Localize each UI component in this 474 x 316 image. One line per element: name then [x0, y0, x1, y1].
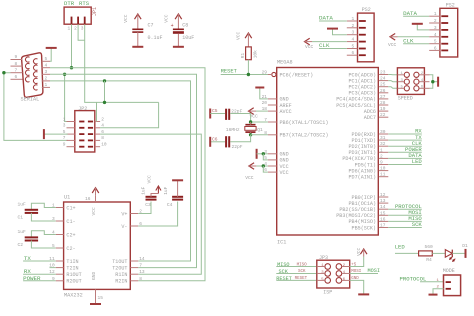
svg-text:1: 1 — [380, 147, 383, 153]
connector JP2 (2x5 pin header) — [63, 106, 107, 152]
svg-text:1uF: 1uF — [18, 229, 27, 235]
svg-text:PD3(INT1): PD3(INT1) — [348, 150, 376, 156]
svg-text:1: 1 — [434, 11, 437, 17]
svg-text:RESET: RESET — [295, 277, 308, 281]
svg-text:6: 6 — [15, 74, 18, 80]
VCC at MEGA8 AVCC pin18 — [249, 108, 254, 115]
wire XTAL2 — [251, 134, 268, 136]
capacitor C5 22pF — [210, 108, 242, 120]
svg-text:PD7(AIN1): PD7(AIN1) — [348, 175, 376, 181]
svg-text:RESET: RESET — [276, 276, 292, 282]
svg-text:8: 8 — [139, 276, 142, 282]
capacitor C8 10uF (polarized) with VCC and ground — [163, 14, 194, 47]
svg-text:9: 9 — [15, 54, 18, 60]
svg-text:17: 17 — [380, 223, 386, 229]
svg-text:4: 4 — [352, 37, 355, 43]
svg-text:3: 3 — [63, 123, 66, 129]
svg-text:2: 2 — [434, 18, 437, 24]
svg-text:2: 2 — [352, 23, 355, 29]
svg-text:VCC: VCC — [280, 164, 289, 170]
junction R1/RESET — [247, 73, 250, 76]
junction DB9 pin2 / JP2 riser — [103, 79, 106, 82]
svg-text:T2IN: T2IN — [66, 265, 78, 271]
MAX232 GND pin15 — [90, 271, 103, 304]
svg-text:22: 22 — [380, 112, 386, 118]
wire D1 to ground — [452, 252, 465, 254]
svg-text:VCC: VCC — [163, 14, 169, 23]
svg-text:PD0(RXD): PD0(RXD) — [352, 132, 376, 138]
junction XTAL2 — [249, 133, 252, 136]
svg-text:C4: C4 — [167, 202, 173, 208]
svg-text:PC0(ADC0): PC0(ADC0) — [348, 72, 376, 78]
wire DB9 pin2 net to bus (down to MAX232 T1OUT) — [50, 81, 191, 261]
wire MISO to ISP pin1 — [276, 266, 317, 268]
svg-text:1: 1 — [63, 116, 66, 122]
wire ISP pin4 MOSI — [350, 272, 378, 274]
inversion bubble on /RESET pin — [272, 72, 276, 76]
svg-text:10: 10 — [101, 142, 107, 148]
svg-text:PS2: PS2 — [362, 7, 371, 13]
svg-text:1: 1 — [68, 26, 71, 32]
svg-text:5: 5 — [45, 56, 48, 62]
svg-text:VCC: VCC — [245, 175, 254, 181]
wire DB9 pin7 to JP2 pin7 via left edge — [4, 73, 68, 141]
ground at MEGA8 pins 3,5 — [257, 149, 268, 160]
VCC at ISP pin2 — [350, 247, 367, 266]
svg-text:9: 9 — [380, 160, 383, 166]
capacitor C6 22pF — [210, 135, 250, 150]
svg-text:30: 30 — [380, 129, 386, 135]
svg-text:AVCC: AVCC — [280, 109, 292, 115]
svg-text:22pF: 22pF — [232, 144, 243, 150]
svg-text:T1IN: T1IN — [66, 259, 78, 265]
svg-text:MISO: MISO — [277, 262, 289, 268]
svg-text:V+: V+ — [121, 211, 127, 217]
wire PC2 to SPEED pin5 — [388, 87, 397, 89]
svg-text:C6: C6 — [212, 136, 218, 142]
VCC at MEGA8 pins 4,6 — [245, 163, 268, 181]
svg-text:3: 3 — [352, 30, 355, 36]
wire RESET to MEGA8 PC6 — [221, 74, 272, 76]
svg-text:16: 16 — [380, 216, 386, 222]
svg-text:JP2: JP2 — [78, 106, 87, 112]
svg-text:560: 560 — [425, 244, 434, 250]
svg-text:26: 26 — [380, 88, 386, 94]
svg-text:SCK: SCK — [279, 269, 289, 275]
svg-text:T1OUT: T1OUT — [112, 259, 127, 265]
connector SPEED (2x3 jumper) — [397, 68, 429, 102]
svg-text:1uF: 1uF — [140, 186, 146, 194]
junction on DB9 pin7 wire — [2, 71, 5, 74]
svg-text:2: 2 — [380, 153, 383, 159]
svg-text:PS2: PS2 — [446, 2, 455, 8]
svg-text:PD1(TXD): PD1(TXD) — [352, 138, 376, 144]
svg-text:2: 2 — [45, 76, 48, 82]
junction on JP2 pin2/4 net — [103, 101, 106, 104]
ground bar at SPEED — [437, 77, 439, 87]
svg-text:AREF: AREF — [280, 103, 292, 109]
svg-text:RTS: RTS — [79, 0, 90, 7]
svg-text:PC4(ADC4/SDA): PC4(ADC4/SDA) — [336, 97, 376, 103]
wire JP1 pin1 down to DB9 pin4 net — [71, 24, 73, 67]
svg-text:10uF: 10uF — [182, 35, 194, 41]
resistor R4 560 — [419, 244, 433, 263]
wire DB9 pin4 net to bus (down to MAX232 R2IN) — [50, 68, 205, 281]
wire LED to R4 — [395, 252, 419, 254]
svg-text:RESET: RESET — [221, 69, 238, 75]
ground at MODE pin2 — [433, 289, 444, 295]
wire CLK to PS2-2 pin5 — [403, 43, 429, 45]
svg-text:3: 3 — [434, 25, 437, 31]
svg-text:2: 2 — [101, 116, 104, 122]
MAX232 VCC pin16 — [85, 188, 99, 216]
svg-text:3: 3 — [45, 69, 48, 75]
ground at JP2 pin5 — [44, 133, 68, 135]
svg-text:5: 5 — [352, 44, 355, 50]
svg-text:6: 6 — [434, 45, 437, 51]
connector JP3 ISP (2x3) — [317, 255, 350, 296]
MAX232 left pins — [49, 203, 81, 285]
ground at PS2-2 pin3 — [417, 24, 429, 30]
svg-text:25: 25 — [380, 82, 386, 88]
svg-text:MEGA8: MEGA8 — [277, 60, 293, 66]
svg-text:7: 7 — [139, 263, 142, 269]
svg-text:+: + — [171, 23, 174, 29]
wire PC0 to SPEED pin1 — [388, 74, 397, 76]
junction DB9 pin3 / JP2 pin1 riser — [63, 73, 66, 76]
wire DATA to PS2-2 pin1 — [403, 15, 429, 17]
svg-text:VCC: VCC — [123, 14, 129, 23]
svg-text:U1: U1 — [64, 194, 70, 200]
ground at PS2-1 pin3 — [333, 29, 347, 35]
wire C5 to XTAL1 — [230, 114, 250, 123]
wire RESET to ISP pin5 — [276, 279, 317, 281]
svg-text:VCC: VCC — [91, 207, 97, 216]
wire JP1 pin2 to pin3 link — [78, 24, 85, 40]
svg-text:GND: GND — [280, 152, 289, 158]
svg-text:R1IN: R1IN — [115, 272, 127, 278]
svg-text:C1-: C1- — [66, 219, 75, 225]
wire R4 to D1 — [432, 252, 445, 254]
wire riser from DB9 pin2 net down to JP2 pin2/4 net — [104, 81, 106, 103]
ground bar at D1 — [465, 249, 467, 258]
svg-text:PB0(ICP): PB0(ICP) — [352, 195, 376, 201]
svg-text:VCC: VCC — [305, 44, 314, 50]
svg-text:SERIAL: SERIAL — [21, 96, 40, 102]
svg-text:1: 1 — [45, 82, 48, 88]
svg-text:10k: 10k — [252, 50, 258, 59]
svg-text:T2OUT: T2OUT — [112, 265, 127, 271]
wire DATA to PS2-1 pin1 — [319, 20, 347, 22]
svg-text:19: 19 — [380, 106, 386, 112]
svg-text:14: 14 — [380, 204, 386, 210]
svg-text:8: 8 — [101, 135, 104, 141]
svg-text:28: 28 — [380, 100, 386, 106]
svg-text:R1OUT: R1OUT — [66, 272, 81, 278]
wire PROTOCOL to MODE switch — [420, 281, 444, 283]
svg-text:VCC: VCC — [280, 170, 289, 176]
svg-text:1: 1 — [352, 16, 355, 22]
wire JP2 pin6 to bus (down to MAX232 R1IN) — [100, 134, 201, 274]
wire PC1 to SPEED pin3 — [388, 81, 397, 82]
capacitor C2 1uF — [18, 229, 56, 248]
svg-text:PB1(OC1A): PB1(OC1A) — [348, 201, 376, 207]
svg-text:Q1: Q1 — [257, 127, 263, 133]
wire JP1 pin3 down then right (DTR/RTS net) — [85, 24, 159, 102]
svg-text:29: 29 — [262, 70, 268, 76]
wire riser DB9 pin3 net down to JP2 pin1 — [65, 74, 67, 121]
svg-text:GND: GND — [280, 97, 289, 103]
connector JP1 (DTR/RTS pin header) — [64, 0, 98, 31]
svg-text:13: 13 — [139, 269, 145, 275]
VCC at PS2-2 pin4 — [390, 34, 395, 41]
switch S1 MODE — [437, 268, 461, 295]
svg-text:JP1: JP1 — [92, 7, 98, 16]
svg-text:12: 12 — [380, 192, 386, 198]
svg-text:16MHz: 16MHz — [226, 127, 240, 133]
svg-text:PB5(SCK): PB5(SCK) — [352, 225, 376, 231]
svg-text:PC2(ADC2): PC2(ADC2) — [348, 85, 376, 91]
wire DB9 pin3 net to bus (down to MAX232 T2OUT) — [50, 74, 197, 267]
svg-text:5: 5 — [434, 39, 437, 45]
svg-text:VCC: VCC — [146, 175, 152, 184]
svg-text:24: 24 — [380, 76, 386, 82]
microcontroller IC1 MEGA8 — [277, 60, 379, 246]
junction at JP1-pin1 / DB9-pin4 wire — [70, 66, 73, 69]
svg-text:MISO: MISO — [297, 263, 308, 267]
svg-text:PB2(SS/OC1B): PB2(SS/OC1B) — [339, 207, 376, 213]
svg-text:PC6(/RESET): PC6(/RESET) — [280, 72, 314, 78]
svg-text:PB7(XTAL2/TOSC2): PB7(XTAL2/TOSC2) — [280, 133, 329, 139]
svg-text:R2OUT: R2OUT — [66, 279, 81, 285]
svg-text:LED: LED — [395, 243, 406, 250]
svg-text:7: 7 — [15, 67, 18, 73]
ground at DB9 pin 5 — [50, 48, 51, 61]
crystal Q1 16MHz — [226, 122, 263, 135]
svg-text:C3: C3 — [145, 202, 151, 208]
svg-text:DTR: DTR — [64, 0, 75, 7]
wire stub T2IN — [50, 267, 56, 269]
svg-text:PD4(XCK/T0): PD4(XCK/T0) — [342, 156, 376, 162]
wire R1 to RESET net — [247, 60, 249, 75]
connector PS2 (left) — [347, 7, 374, 62]
svg-text:MODE: MODE — [443, 268, 455, 274]
svg-text:C7: C7 — [148, 23, 154, 29]
wire V+ to C3 — [138, 202, 151, 214]
svg-text:PD6(AIN0): PD6(AIN0) — [348, 168, 376, 174]
svg-text:PD2(INT0): PD2(INT0) — [348, 144, 376, 150]
svg-text:27: 27 — [380, 94, 386, 100]
svg-text:13: 13 — [380, 198, 386, 204]
svg-text:D1: D1 — [462, 243, 468, 249]
svg-text:C2: C2 — [18, 242, 24, 248]
svg-text:4: 4 — [434, 32, 437, 38]
connector X1 DB9 SERIAL — [11, 53, 51, 103]
resistor R1 10k pull-up — [236, 31, 259, 59]
wires SPEED pins 2,4,6 to ground — [430, 75, 433, 89]
svg-text:C8: C8 — [182, 23, 188, 29]
svg-text:10: 10 — [380, 166, 386, 172]
svg-text:0.1uF: 0.1uF — [148, 35, 163, 41]
capacitor C3 1uF with VCC — [140, 175, 161, 208]
wire SCK to ISP pin3 — [276, 272, 317, 274]
svg-text:32: 32 — [380, 141, 386, 147]
svg-text:4: 4 — [45, 62, 48, 68]
svg-text:PB6(XTAL1/TOSC1): PB6(XTAL1/TOSC1) — [280, 120, 329, 126]
VCC at PS2-1 pin4 — [305, 38, 310, 45]
svg-text:6: 6 — [352, 50, 355, 56]
LED D1 — [445, 243, 468, 262]
svg-text:ADC7: ADC7 — [364, 115, 376, 121]
svg-text:PD5(T1): PD5(T1) — [355, 162, 376, 168]
svg-text:PC5(ADC5/SCL): PC5(ADC5/SCL) — [336, 103, 376, 109]
svg-text:C1: C1 — [18, 215, 24, 221]
svg-text:16: 16 — [85, 196, 91, 202]
svg-text:SPEED: SPEED — [398, 96, 413, 102]
capacitor C1 1uF — [18, 201, 56, 221]
svg-text:GND: GND — [280, 158, 289, 164]
svg-text:20: 20 — [262, 100, 268, 106]
svg-text:1uF: 1uF — [163, 186, 169, 194]
capacitor C4 1uF with ground — [163, 180, 183, 208]
svg-text:JP3: JP3 — [319, 255, 328, 261]
svg-text:R4: R4 — [426, 257, 432, 263]
connector PS2 (right) — [429, 2, 457, 57]
svg-text:VCC: VCC — [388, 42, 397, 48]
svg-text:IC1: IC1 — [277, 240, 286, 246]
svg-text:ISP: ISP — [323, 290, 332, 296]
svg-text:8: 8 — [15, 61, 18, 67]
wire CLK to PS2-1 pin5 — [319, 48, 347, 50]
svg-text:31: 31 — [380, 135, 386, 141]
svg-text:7: 7 — [63, 135, 66, 141]
svg-text:PC1(ADC1): PC1(ADC1) — [348, 78, 376, 84]
svg-text:SCK: SCK — [298, 270, 306, 274]
svg-text:C1+: C1+ — [66, 205, 75, 211]
svg-text:15: 15 — [380, 210, 386, 216]
svg-text:23: 23 — [380, 70, 386, 76]
ground at MEGA8 pin21 — [260, 88, 268, 99]
svg-text:DATA: DATA — [319, 14, 333, 21]
capacitor C7 0.1uF with VCC and ground — [123, 14, 163, 47]
svg-text:3: 3 — [81, 26, 84, 32]
svg-text:9: 9 — [63, 142, 66, 148]
svg-text:PB3(MOSI/OC2): PB3(MOSI/OC2) — [336, 213, 376, 219]
svg-text:14: 14 — [139, 256, 145, 262]
svg-text:11: 11 — [380, 172, 386, 178]
junction XTAL1 — [249, 120, 252, 123]
svg-text:C2-: C2- — [66, 246, 75, 252]
MAX232 right pins — [112, 209, 145, 285]
svg-text:V-: V- — [121, 224, 127, 230]
svg-text:15: 15 — [98, 295, 104, 301]
svg-text:C5: C5 — [212, 108, 218, 114]
svg-text:PC3(ADC3): PC3(ADC3) — [348, 91, 376, 97]
svg-text:PROTOCOL: PROTOCOL — [400, 275, 427, 282]
svg-text:VCC: VCC — [236, 31, 242, 40]
MEGA8 right pins — [336, 70, 388, 232]
wire V- to C4 — [138, 202, 177, 227]
MEGA8 left pins — [262, 70, 329, 176]
svg-text:C2+: C2+ — [66, 232, 75, 238]
junction SPEED gnd — [431, 80, 434, 83]
svg-text:GND: GND — [91, 271, 97, 280]
svg-text:R1: R1 — [240, 53, 246, 59]
svg-text:2: 2 — [74, 26, 77, 32]
svg-text:PB4(MISO): PB4(MISO) — [348, 219, 376, 225]
svg-text:1uF: 1uF — [18, 201, 27, 207]
wire JP2 pin2 riser to pin4 loop net — [96, 102, 98, 121]
svg-text:VCC: VCC — [356, 247, 362, 256]
svg-text:MAX232: MAX232 — [64, 292, 83, 298]
svg-text:ADC6: ADC6 — [364, 109, 376, 115]
ground at ISP pin6 — [350, 280, 364, 294]
ISP pin net names — [295, 263, 362, 281]
IC U1 MAX232 — [64, 194, 131, 298]
svg-text:R2IN: R2IN — [115, 279, 127, 285]
